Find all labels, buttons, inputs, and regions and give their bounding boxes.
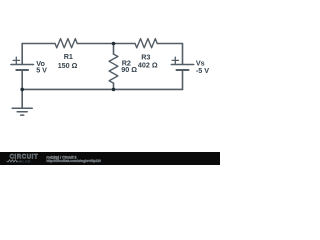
wire ground stub <box>21 89 23 108</box>
battery Vo plates <box>11 65 34 71</box>
resistor R1 <box>55 39 77 48</box>
wire bottom <box>22 88 182 90</box>
svg-text:90 Ω: 90 Ω <box>121 65 137 74</box>
wire R2 top stub from node A <box>113 44 115 55</box>
node A junction (top, R2) <box>112 42 116 46</box>
svg-text:-5 V: -5 V <box>196 66 209 75</box>
wire top-middle <box>77 43 135 45</box>
wire top-left horizontal <box>22 43 55 45</box>
svg-text:150 Ω: 150 Ω <box>58 61 78 70</box>
wire top-right with corner down to Vs <box>157 44 182 65</box>
battery Vs plus sign <box>172 57 178 63</box>
svg-text:402 Ω: 402 Ω <box>138 61 158 70</box>
svg-text:R1: R1 <box>64 52 73 61</box>
wire R2 bottom stub <box>113 83 115 89</box>
svg-text:▶LAB: ▶LAB <box>19 160 31 164</box>
ground <box>12 108 32 115</box>
resistor R3 <box>135 39 157 48</box>
svg-text:http://circuitlab.com/c/mgkrv6: http://circuitlab.com/c/mgkrv63p226 <box>46 159 101 163</box>
watermark bar <box>0 152 220 165</box>
node junction bottom-left (ground) <box>20 88 24 92</box>
battery Vo plus sign <box>13 57 19 63</box>
wire right rail lower (Vs to bottom) <box>182 70 184 89</box>
node junction bottom-middle (R2) <box>112 88 116 92</box>
battery Vs plates <box>171 65 193 71</box>
wire left rail upper (to Vo top plate) <box>21 44 23 65</box>
wire left rail lower (Vo to bottom) <box>21 70 23 89</box>
watermark logo resistor zigzag <box>7 160 19 162</box>
resistor R2 <box>109 54 118 83</box>
svg-text:5 V: 5 V <box>36 66 47 75</box>
